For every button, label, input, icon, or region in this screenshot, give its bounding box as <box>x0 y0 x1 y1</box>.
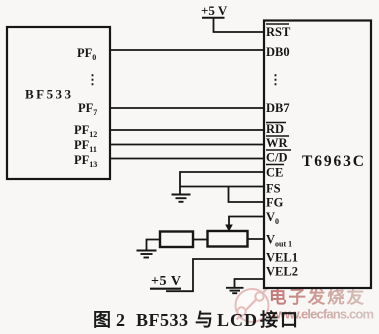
svg-text:RST: RST <box>266 25 291 39</box>
svg-text:T6963C: T6963C <box>302 153 364 170</box>
svg-text:C/D: C/D <box>266 151 288 165</box>
svg-text:PF0: PF0 <box>77 46 96 62</box>
wiper arrowhead <box>225 225 233 232</box>
wire PF0 to DB0 <box>110 49 264 51</box>
svg-text:PF12: PF12 <box>74 123 97 139</box>
svg-text:WR: WR <box>266 136 289 150</box>
svg-text:FG: FG <box>266 196 284 210</box>
pin RD overline <box>266 122 286 124</box>
wire +5V to VEL1 <box>166 259 264 291</box>
IC box U1 BF533 <box>7 27 110 179</box>
wire PF13 to C/D <box>110 158 264 160</box>
resistor R1 <box>160 232 193 248</box>
wire VEL2 to ground <box>235 279 265 287</box>
ground G2 (R1) <box>137 251 157 258</box>
resistor R2 potentiometer <box>208 231 248 247</box>
IC box U2 T6963C <box>264 21 371 289</box>
ground G1 (CE/FS) <box>172 195 191 202</box>
svg-text:PF11: PF11 <box>74 138 97 154</box>
svg-text:BF533: BF533 <box>25 87 72 102</box>
wire PF12 to RD <box>110 129 264 131</box>
svg-text:V0: V0 <box>266 210 279 226</box>
svg-text:VEL2: VEL2 <box>266 265 298 279</box>
wire CE to ground <box>180 172 264 194</box>
svg-text:+5 V: +5 V <box>151 274 181 289</box>
svg-text:图: 图 <box>93 310 111 330</box>
wire R1 to ground <box>147 240 161 251</box>
svg-text:⋮: ⋮ <box>86 72 99 87</box>
svg-text:FS: FS <box>266 182 281 196</box>
pin RST overline <box>266 23 289 25</box>
pin C/D overline <box>266 149 291 151</box>
wire FS <box>180 186 264 188</box>
ground G3 (VEL2) <box>226 288 244 293</box>
wire R1 to R2 <box>193 239 208 241</box>
svg-text:与: 与 <box>195 310 213 330</box>
wire V0 to pot wiper <box>229 217 264 226</box>
wire R2 to Vout <box>248 238 265 240</box>
svg-text:PF7: PF7 <box>78 101 97 117</box>
svg-text:⋮: ⋮ <box>269 72 282 87</box>
svg-text:DB0: DB0 <box>266 45 290 59</box>
svg-text:VEL1: VEL1 <box>266 251 298 265</box>
wire PF11 to WR <box>110 144 264 146</box>
svg-text:+5 V: +5 V <box>201 3 228 18</box>
svg-text:Vout 1: Vout 1 <box>266 233 292 249</box>
pin CE overline <box>266 164 284 166</box>
svg-text:DB7: DB7 <box>266 101 290 115</box>
svg-text:BF533: BF533 <box>136 310 188 330</box>
svg-text:电子发烧友: 电子发烧友 <box>269 287 365 307</box>
wire FG branch <box>229 187 265 203</box>
svg-text:LCD: LCD <box>217 310 257 330</box>
svg-text:RD: RD <box>266 122 284 136</box>
watermark logo circle (elecfans) <box>236 289 269 323</box>
pin WR overline <box>266 135 289 137</box>
wire +5V to RST <box>214 19 265 33</box>
svg-text:CE: CE <box>266 166 283 180</box>
wire PF7 to DB7 <box>110 107 264 109</box>
caption 图2 BF533 与 LCD 接口 <box>93 309 298 330</box>
svg-text:PF13: PF13 <box>74 153 97 169</box>
svg-text:2: 2 <box>116 310 125 330</box>
